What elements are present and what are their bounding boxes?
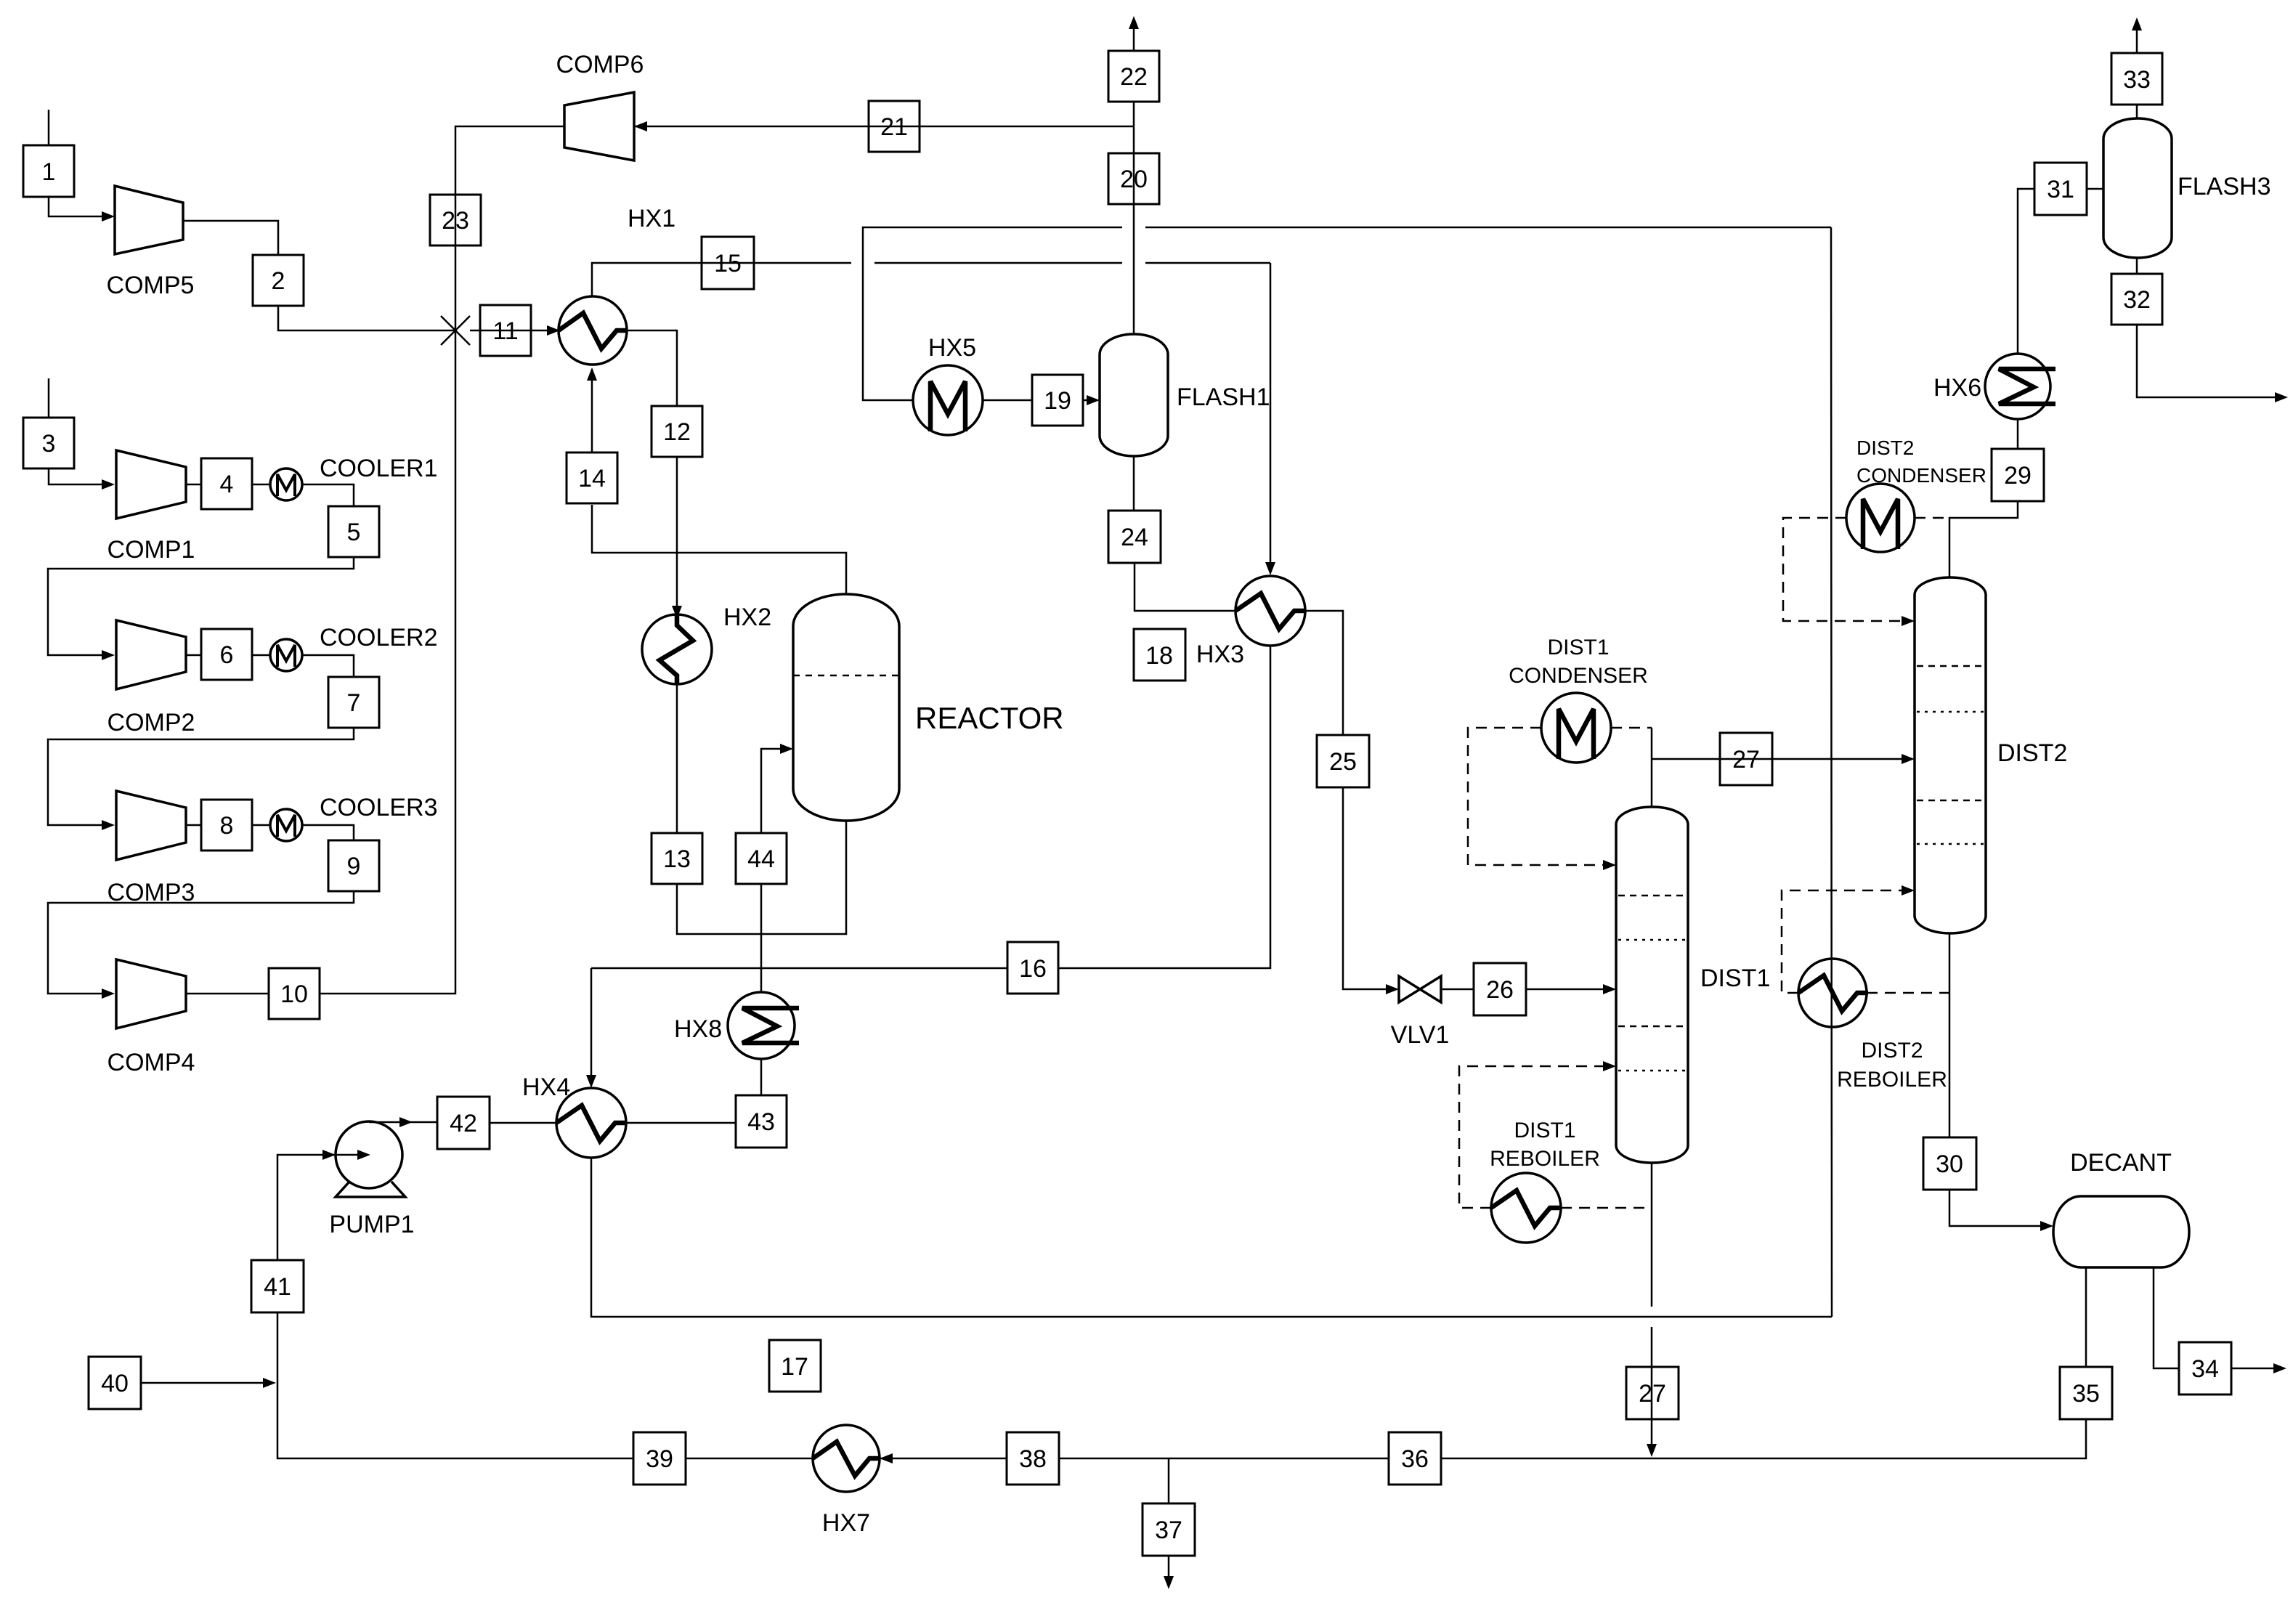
svg-text:HX8: HX8 <box>674 1015 722 1043</box>
svg-text:10: 10 <box>280 981 308 1008</box>
valve VLV1 <box>1391 976 1450 1049</box>
stream box 5 <box>328 506 379 557</box>
wire FLASH3 bottoms to stream 32 <box>2136 258 2138 274</box>
wire stream 44 riser to REACTOR <box>761 749 787 833</box>
cooler COOLER3 <box>270 794 438 841</box>
arrow into HX1 <box>547 325 560 336</box>
wire VLV1 to stream 26 <box>1441 988 1474 991</box>
svg-text:29: 29 <box>2004 462 2032 490</box>
svg-text:39: 39 <box>646 1445 673 1473</box>
svg-text:26: 26 <box>1486 976 1514 1004</box>
wire HX8 to stream 43 <box>760 1059 763 1095</box>
stream box 16 <box>1007 942 1058 994</box>
svg-text:VLV1: VLV1 <box>1391 1021 1450 1049</box>
wire HX3 bottom to stream 16 line <box>1058 646 1270 968</box>
svg-text:REACTOR: REACTOR <box>915 701 1064 735</box>
wire stream 15 line middle segment <box>874 262 1122 264</box>
svg-text:CONDENSER: CONDENSER <box>1856 464 1986 487</box>
svg-text:43: 43 <box>747 1108 775 1136</box>
stream box 34 <box>2179 1342 2231 1394</box>
wire dashed reboiler loop to DIST2 <box>1782 890 1909 993</box>
wire DIST1 bottoms continued <box>1651 1327 1653 1453</box>
wire stream 16 into HX4 top <box>591 968 593 1084</box>
compressor COMP1 <box>107 450 195 564</box>
wire COMP2 to stream 6 <box>186 654 201 657</box>
cooler COOLER1 <box>270 455 438 500</box>
svg-text:36: 36 <box>1401 1445 1429 1473</box>
svg-text:HX3: HX3 <box>1196 641 1244 668</box>
stream box 35 <box>2060 1367 2112 1419</box>
wire stream 30 to DECANT <box>1949 1190 2048 1226</box>
wire stream 41 to PUMP1 inlet <box>277 1155 365 1260</box>
svg-text:DIST2: DIST2 <box>1997 739 2067 767</box>
compressor COMP3 <box>107 791 195 906</box>
arrow pump outlet <box>399 1117 413 1127</box>
arrow dashed return into DIST1 <box>1603 1061 1616 1071</box>
stream box 24 <box>1108 511 1161 563</box>
compressor COMP2 <box>107 620 195 736</box>
stream box 41 <box>251 1260 304 1312</box>
svg-text:COMP4: COMP4 <box>107 1049 195 1076</box>
svg-text:COMP1: COMP1 <box>107 536 195 564</box>
wire stream 41 down to bottom header <box>277 1312 633 1458</box>
wire feed stub above stream 1 <box>48 110 50 145</box>
svg-text:13: 13 <box>663 845 691 873</box>
arrow into DIST2 <box>1902 754 1915 764</box>
wire stream 38 to HX7 <box>880 1458 1007 1460</box>
heat exchanger HX4 <box>522 1073 626 1158</box>
stream box 6 <box>201 629 252 680</box>
stream box 13 <box>652 833 702 884</box>
decanter DECANT <box>2053 1149 2189 1267</box>
svg-text:9: 9 <box>347 853 361 880</box>
svg-text:24: 24 <box>1121 524 1148 551</box>
stream box 33 <box>2111 53 2162 105</box>
wire dashed condenser suction loop <box>1468 728 1607 865</box>
svg-text:33: 33 <box>2123 66 2151 94</box>
wire COOLER2 to stream 7 <box>302 655 354 677</box>
stream box 9 <box>328 840 379 891</box>
arrow into FLASH1 <box>1087 395 1100 405</box>
svg-text:PUMP1: PUMP1 <box>329 1211 414 1238</box>
stream box 4 <box>201 458 252 509</box>
svg-text:HX6: HX6 <box>1933 374 1981 402</box>
stream box 17 (floating) <box>769 1340 821 1392</box>
wire riser from stream 17 line to top header <box>1831 227 1832 1317</box>
arrow into DECANT <box>2040 1221 2053 1231</box>
svg-text:COMP2: COMP2 <box>107 709 195 736</box>
arrow product out <box>2273 1363 2286 1373</box>
svg-text:42: 42 <box>450 1110 477 1137</box>
svg-text:COOLER1: COOLER1 <box>320 455 438 482</box>
cooler COOLER2 <box>270 624 438 671</box>
stream box 14 <box>567 452 617 503</box>
stream box 38 <box>1007 1432 1059 1485</box>
svg-text:37: 37 <box>1155 1517 1182 1544</box>
svg-text:3: 3 <box>42 430 56 458</box>
wire stream 7 to COMP3 <box>48 728 354 825</box>
wire stream 8 to COOLER3 <box>252 824 270 827</box>
arrow into COMP3 <box>102 820 115 830</box>
wire stream 19 to FLASH1 <box>1083 399 1094 402</box>
arrow into HX3 top <box>1265 562 1275 575</box>
distillation column DIST1 <box>1616 807 1770 1163</box>
heat exchanger HX8 <box>674 992 799 1059</box>
wire dashed reboiler draw from bottoms <box>1867 992 1949 994</box>
arrow into COMP5 <box>102 211 115 222</box>
svg-text:11: 11 <box>492 317 518 345</box>
svg-text:REBOILER: REBOILER <box>1837 1068 1947 1092</box>
wire stream 1 to COMP5 <box>49 197 109 216</box>
wire stream 35 to bottom header <box>1441 1419 2086 1458</box>
wire COMP5 to stream 2 <box>183 221 278 255</box>
svg-text:HX7: HX7 <box>822 1509 870 1537</box>
svg-text:12: 12 <box>663 418 691 446</box>
stream box 12 <box>652 406 702 457</box>
wire dashed condenser suction loop <box>1783 518 1909 621</box>
flash drum FLASH1 <box>1100 334 1270 456</box>
svg-text:DIST2: DIST2 <box>1861 1039 1923 1063</box>
svg-text:DECANT: DECANT <box>2070 1149 2172 1177</box>
wire HX2 to stream 13 <box>676 684 678 833</box>
stream box 27 feed to DIST2 <box>1720 733 1772 785</box>
stream box 22 <box>1108 51 1159 102</box>
pump PUMP1 <box>329 1121 414 1238</box>
wire DECANT outlet right to stream 34 <box>2154 1267 2179 1368</box>
arrow into REACTOR side <box>780 744 793 754</box>
stream box 21 <box>869 101 920 152</box>
arrow before pump <box>322 1150 336 1160</box>
svg-text:COMP6: COMP6 <box>556 51 644 78</box>
stream box 1 <box>23 145 74 197</box>
wire HX1 top to stream 15 line (hop gaps at crossings) <box>592 263 851 296</box>
svg-text:2: 2 <box>272 267 285 295</box>
compressor COMP5 <box>107 186 195 299</box>
wire HX7 to stream 39 <box>686 1458 813 1460</box>
svg-text:44: 44 <box>747 845 775 873</box>
wire stream 24 to HX3 <box>1135 563 1235 611</box>
wire dashed reboiler draw from bottoms <box>1561 1207 1652 1209</box>
node junction X at mixer <box>441 316 470 345</box>
svg-text:COMP5: COMP5 <box>107 272 195 299</box>
wire header line from riser toward HX5 (hop gap at stream 20 line) <box>1145 227 1831 229</box>
stream box 39 <box>633 1432 686 1485</box>
arrow product out <box>2275 392 2288 402</box>
stream box 23 <box>430 195 481 245</box>
wire stream 15 line right segment <box>1145 262 1270 264</box>
stream box 19 <box>1032 375 1083 426</box>
wire FLASH1 bottoms to stream 24 <box>1133 456 1135 511</box>
arrow into COMP6 <box>634 121 647 131</box>
wire stream 13 to REACTOR bottom <box>677 821 846 934</box>
wire PUMP1 outlet to stream 42 <box>369 1121 437 1124</box>
wire DIST2 bottoms to stream 30 <box>1949 933 1951 1137</box>
wire HX4 to stream 43 <box>626 1122 736 1124</box>
stream box 27 bottoms <box>1626 1367 1679 1419</box>
arrow into COMP4 <box>102 988 115 999</box>
wire purge line up with arrow (stream 22) <box>1133 22 1135 51</box>
arrow at pump center <box>357 1150 370 1160</box>
wire stream 33 arrow up <box>2136 23 2138 53</box>
stream box 26 <box>1474 963 1526 1015</box>
wire dashed condenser to overhead jog <box>1915 517 1949 519</box>
svg-text:30: 30 <box>1936 1150 1963 1178</box>
heat exchanger HX2 <box>642 604 771 684</box>
svg-text:4: 4 <box>220 471 234 498</box>
svg-text:DIST1: DIST1 <box>1514 1118 1575 1142</box>
svg-text:35: 35 <box>2072 1380 2100 1408</box>
wire stream 21 into COMP6 <box>634 126 1134 128</box>
heat exchanger HX6 <box>1933 354 2055 419</box>
wire dashed reboiler loop to DIST1 <box>1459 1066 1607 1208</box>
svg-text:FLASH1: FLASH1 <box>1177 383 1270 411</box>
arrow into HX1 bottom <box>587 368 597 381</box>
svg-text:COOLER3: COOLER3 <box>320 794 438 821</box>
svg-text:7: 7 <box>347 689 361 717</box>
wire stream 15 down to HX3 (with crossover gaps) <box>1270 263 1272 571</box>
stream box 8 <box>201 800 252 850</box>
svg-text:14: 14 <box>578 465 606 492</box>
wire stream 4 to COOLER1 <box>252 484 270 486</box>
svg-text:CONDENSER: CONDENSER <box>1509 664 1648 688</box>
svg-text:31: 31 <box>2047 176 2074 203</box>
wire HX6 to stream 29 <box>2017 419 2019 449</box>
arrow purge up <box>2132 17 2142 31</box>
svg-text:DIST1: DIST1 <box>1547 636 1609 659</box>
stream box 40 <box>89 1357 141 1409</box>
stream box 10 <box>269 968 320 1019</box>
wire junction to stream 11 to HX1 <box>470 330 554 332</box>
svg-text:18: 18 <box>1145 642 1173 670</box>
arrow into HX2 top <box>672 606 682 619</box>
stream box 18 (floating) <box>1134 629 1185 681</box>
arrow into DIST1 <box>1603 984 1616 994</box>
wire HX5 to stream 19 <box>983 399 1032 402</box>
svg-text:22: 22 <box>1120 63 1148 91</box>
stream box 30 <box>1923 1137 1976 1190</box>
wire header line continued to HX5 drop <box>863 227 1122 400</box>
wire HX1 to stream 12 to HX2 <box>627 330 677 406</box>
svg-text:FLASH3: FLASH3 <box>2178 173 2271 200</box>
reboiler DIST1 REBOILER <box>1490 1118 1600 1243</box>
wire FLASH3 vapor up (stream 33) <box>2136 105 2138 118</box>
wire stream 40 to junction <box>141 1382 272 1384</box>
wire stream 31 to FLASH3 <box>2087 188 2103 190</box>
stream box 20 <box>1108 153 1159 204</box>
stream box 42 <box>437 1097 490 1149</box>
wire stream 14 to HX1 bottom <box>591 369 593 452</box>
reboiler DIST2 REBOILER <box>1798 959 1947 1092</box>
wire COOLER3 to stream 9 <box>302 825 354 840</box>
svg-text:15: 15 <box>714 250 742 277</box>
svg-text:5: 5 <box>347 519 361 546</box>
heat exchanger HX7 <box>813 1425 880 1537</box>
svg-text:DIST1: DIST1 <box>1700 965 1770 992</box>
stream box 3 <box>23 418 74 468</box>
wire stream 20 vertical (FLASH1 vapor) <box>1133 102 1135 334</box>
svg-text:27: 27 <box>1732 746 1760 774</box>
wire stream 12 to HX2 top <box>676 457 678 619</box>
wire stream 27 to DIST2 <box>1652 758 1909 760</box>
svg-text:25: 25 <box>1329 748 1357 776</box>
wire HX3 right to stream 25 <box>1305 611 1343 735</box>
svg-text:34: 34 <box>2191 1355 2219 1383</box>
svg-text:6: 6 <box>220 641 234 669</box>
svg-text:32: 32 <box>2123 286 2151 314</box>
wire stream 9 to COMP4 <box>48 891 354 994</box>
wire stream 32 out right <box>2137 325 2282 397</box>
arrow dashed return into DIST1 <box>1603 860 1616 870</box>
wire COMP1 to stream 4 <box>186 484 201 486</box>
svg-text:38: 38 <box>1019 1445 1047 1473</box>
svg-text:23: 23 <box>442 207 469 235</box>
wire stream 16 to HX4 riser <box>591 967 1007 970</box>
arrow into VLV1 <box>1386 984 1399 994</box>
wire stream 3 to COMP1 <box>49 468 109 484</box>
condenser DIST2 CONDENSER <box>1846 437 1986 552</box>
stream box 37 <box>1143 1503 1195 1556</box>
arrow into COMP2 <box>102 650 115 660</box>
wire stream 26 feed into DIST1 <box>1526 988 1610 991</box>
wire header stream 36 to 38 <box>1059 1458 1389 1460</box>
wire stream 5 to COMP2 <box>48 557 354 655</box>
stream box 11 <box>480 305 531 356</box>
svg-text:20: 20 <box>1120 166 1148 193</box>
stream box 2 <box>253 255 304 306</box>
svg-text:HX1: HX1 <box>628 205 675 232</box>
wire stream 34 out right <box>2231 1368 2281 1370</box>
arrow bottoms into header <box>1647 1444 1657 1457</box>
compressor COMP4 <box>107 959 195 1076</box>
svg-text:27: 27 <box>1639 1380 1666 1408</box>
reactor vessel REACTOR <box>793 594 1064 821</box>
wire stream 2 to junction <box>278 306 455 330</box>
stream box 7 <box>328 677 379 728</box>
svg-text:40: 40 <box>101 1370 129 1397</box>
heat exchanger HX1 <box>559 205 675 365</box>
wire DIST1 bottoms down (hop gap at stream 17 line) <box>1651 1163 1653 1307</box>
arrow into junction <box>263 1378 276 1388</box>
svg-text:17: 17 <box>781 1353 808 1381</box>
stream box 25 <box>1317 735 1369 787</box>
arrow into HX7 <box>880 1453 893 1463</box>
wire COMP4 to stream 10 <box>186 993 269 995</box>
wire stream 42 to HX4 <box>490 1122 556 1124</box>
svg-text:19: 19 <box>1044 387 1071 415</box>
svg-text:21: 21 <box>880 113 908 141</box>
wire REACTOR top to stream 14 to HX1 bottom <box>592 505 846 594</box>
wire stream 10 up to junction <box>320 330 455 994</box>
arrow dashed return into DIST2 <box>1902 616 1915 626</box>
heat exchanger HX5 <box>913 334 983 435</box>
arrow into COMP1 <box>102 479 115 490</box>
stream box 15 <box>702 237 754 289</box>
wire stream 44 from HX8 <box>760 884 763 992</box>
stream box 43 <box>736 1095 787 1148</box>
wire stream 29 jog to DIST2 top <box>1949 501 2018 577</box>
wire feed stub above stream 3 <box>48 378 50 418</box>
flash drum FLASH3 <box>2103 118 2271 258</box>
stream box 44 <box>736 833 787 884</box>
svg-text:HX2: HX2 <box>723 604 771 631</box>
svg-text:COOLER2: COOLER2 <box>320 624 438 651</box>
wire stream 37 purge down <box>1168 1556 1170 1583</box>
wire HX4 bottom to stream 17 line to DIST2 reboiler riser <box>591 1158 1832 1317</box>
wire COMP6 outlet to junction (stream 23 line) <box>455 126 564 330</box>
wire DIST1 overhead (stream 27 takeoff) <box>1651 728 1653 807</box>
wire stream 25 down to valve <box>1343 787 1389 989</box>
svg-text:REBOILER: REBOILER <box>1490 1147 1600 1171</box>
wire HX6 top to stream 31 <box>2018 189 2034 354</box>
wire dashed condenser to overhead <box>1611 727 1652 729</box>
stream box 29 <box>1992 449 2044 501</box>
wire COOLER1 to stream 5 <box>302 484 354 506</box>
svg-text:HX5: HX5 <box>928 334 976 362</box>
condenser DIST1 CONDENSER <box>1509 636 1648 763</box>
stream box 36 <box>1389 1432 1441 1485</box>
svg-text:16: 16 <box>1019 955 1047 983</box>
wire COMP3 to stream 8 <box>186 824 201 827</box>
svg-text:8: 8 <box>220 812 234 840</box>
stream box 32 <box>2111 274 2162 325</box>
wire DECANT bottoms left to stream 35 <box>2085 1267 2087 1367</box>
arrow purge up <box>1129 16 1139 29</box>
svg-text:HX4: HX4 <box>522 1073 570 1101</box>
compressor COMP6 <box>556 51 644 161</box>
svg-text:DIST2: DIST2 <box>1856 437 1914 459</box>
stream box 31 <box>2034 163 2087 215</box>
wire stream 37 branch down <box>1168 1458 1170 1503</box>
wire stream 6 to COOLER2 <box>252 654 270 657</box>
distillation column DIST2 <box>1915 577 2067 933</box>
arrow dashed return into DIST2 <box>1902 885 1915 896</box>
arrow purge down <box>1164 1576 1174 1589</box>
arrow into HX4 top <box>586 1075 596 1088</box>
svg-text:41: 41 <box>264 1273 291 1301</box>
heat exchanger HX3 <box>1196 576 1305 668</box>
svg-text:1: 1 <box>42 158 56 186</box>
